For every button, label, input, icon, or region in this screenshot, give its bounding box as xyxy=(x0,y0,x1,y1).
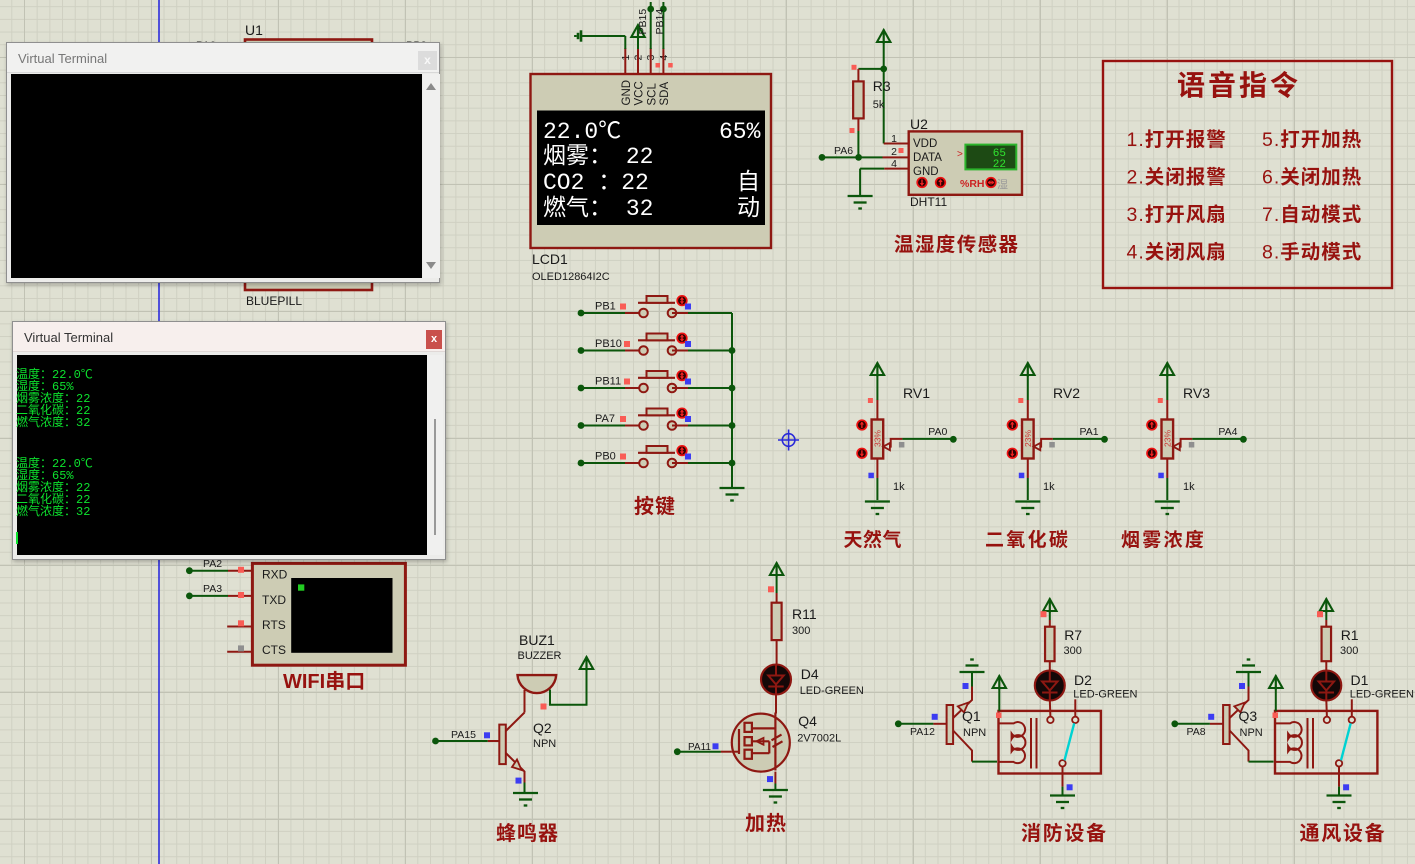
svg-text:300: 300 xyxy=(1064,645,1082,657)
resistor R1 300 xyxy=(1322,627,1332,662)
relay (消防设备) xyxy=(999,711,1101,774)
svg-text:2V7002L: 2V7002L xyxy=(797,733,841,745)
push button PB0 xyxy=(578,460,585,467)
svg-text:LED-GREEN: LED-GREEN xyxy=(800,685,864,697)
svg-text:R7: R7 xyxy=(1064,627,1082,643)
power (buzzer) xyxy=(580,657,593,671)
push button PB11 xyxy=(578,385,585,392)
svg-text:RV1: RV1 xyxy=(903,385,930,401)
svg-text:5.打开加热: 5.打开加热 xyxy=(1262,123,1362,152)
power (通风设备 relay) xyxy=(1269,676,1282,690)
svg-text:RTS: RTS xyxy=(262,618,286,632)
svg-text:PB10: PB10 xyxy=(595,338,622,350)
transistor Q3 NPN xyxy=(1223,705,1230,744)
svg-text:RV3: RV3 xyxy=(1183,385,1210,401)
transistor Q1 NPN xyxy=(947,705,954,744)
svg-text:R11: R11 xyxy=(792,606,817,622)
svg-text:PA1: PA1 xyxy=(1080,426,1099,438)
svg-text:蜂鸣器: 蜂鸣器 xyxy=(496,817,559,846)
svg-text:通风设备: 通风设备 xyxy=(1300,817,1387,846)
svg-text:SCL: SCL xyxy=(646,83,658,106)
node PA8 xyxy=(1171,720,1178,727)
ground (RV1) xyxy=(865,502,890,515)
svg-text:23%: 23% xyxy=(1023,430,1033,447)
power (R7) xyxy=(1043,599,1056,613)
svg-text:33%: 33% xyxy=(873,430,883,447)
svg-text:PA11: PA11 xyxy=(688,742,711,753)
power (R1) xyxy=(1320,599,1333,613)
svg-text:300: 300 xyxy=(1340,645,1358,657)
node PA15 xyxy=(432,738,439,745)
push button PA7 xyxy=(578,422,585,429)
svg-text:PB0: PB0 xyxy=(595,451,616,463)
svg-text:PA15: PA15 xyxy=(451,729,476,741)
svg-text:PA3: PA3 xyxy=(203,583,222,595)
svg-text:VDD: VDD xyxy=(913,138,937,150)
power (LCD pin2) xyxy=(631,25,644,39)
potentiometer RV1 xyxy=(876,376,878,400)
svg-text:Q2: Q2 xyxy=(533,720,552,736)
svg-text:23%: 23% xyxy=(1163,430,1173,447)
Q4 source to ground xyxy=(774,772,776,784)
svg-text:语音指令: 语音指令 xyxy=(1177,64,1301,104)
node PA0 xyxy=(902,438,953,440)
WIFI module xyxy=(252,563,405,665)
svg-text:RV2: RV2 xyxy=(1053,385,1080,401)
svg-text:OLED12864I2C: OLED12864I2C xyxy=(532,271,610,283)
ground (Q4) xyxy=(763,790,788,803)
svg-text:Q1: Q1 xyxy=(962,708,981,724)
svg-text:GND: GND xyxy=(913,166,939,178)
power (RV2) xyxy=(1021,363,1034,377)
node PA6 xyxy=(819,154,826,161)
power (RV1) xyxy=(871,363,884,377)
svg-text:PA8: PA8 xyxy=(1187,726,1206,738)
LED D4 xyxy=(761,665,791,695)
MOSFET Q4 2V7002L xyxy=(732,714,790,772)
svg-text:BUZZER: BUZZER xyxy=(518,650,562,662)
svg-text:按键: 按键 xyxy=(634,490,676,519)
svg-text:PA6: PA6 xyxy=(834,145,853,157)
ground (RV3) xyxy=(1155,502,1180,515)
CTS stub xyxy=(227,651,252,653)
transistor Q2 NPN xyxy=(524,690,526,713)
node PA11 xyxy=(674,748,681,755)
svg-text:TXD: TXD xyxy=(262,593,286,607)
LED D1 xyxy=(1311,671,1341,701)
wire PB14 (SDA) xyxy=(662,2,664,49)
ground (Q3 emitter) xyxy=(1236,660,1261,673)
ground (Q2) xyxy=(513,793,538,806)
svg-text:VCC: VCC xyxy=(634,81,646,105)
LCD1 OLED12864I2C xyxy=(531,74,772,248)
svg-text:PB15: PB15 xyxy=(637,9,649,35)
virtual terminal window 2 xyxy=(12,321,446,560)
svg-text:CTS: CTS xyxy=(262,643,286,657)
svg-text:2.关闭报警: 2.关闭报警 xyxy=(1127,161,1227,190)
svg-text:22: 22 xyxy=(993,159,1006,171)
svg-text:U2: U2 xyxy=(910,116,928,132)
svg-text:%RH: %RH xyxy=(960,178,985,190)
svg-text:4.关闭风扇: 4.关闭风扇 xyxy=(1127,236,1227,265)
svg-text:PA0: PA0 xyxy=(928,426,947,438)
svg-text:RXD: RXD xyxy=(262,568,288,582)
origin marker xyxy=(778,430,799,451)
svg-text:二氧化碳: 二氧化碳 xyxy=(985,525,1070,552)
svg-text:PB11: PB11 xyxy=(595,376,621,388)
svg-text:R3: R3 xyxy=(873,78,891,94)
ground (通风设备) xyxy=(1327,796,1352,809)
push button PB1 xyxy=(578,310,585,317)
LED D2 xyxy=(1035,671,1065,701)
ground (buttons) xyxy=(720,488,745,501)
svg-text:温湿度传感器: 温湿度传感器 xyxy=(894,228,1019,257)
potentiometer RV2 xyxy=(1027,376,1029,400)
resistor R11 300 xyxy=(772,603,782,640)
svg-text:烟雾浓度: 烟雾浓度 xyxy=(1121,525,1206,552)
svg-text:1k: 1k xyxy=(1183,481,1195,493)
svg-text:2: 2 xyxy=(891,146,897,158)
wire PB15 (SCL) xyxy=(650,2,652,49)
svg-text:WIFI串口: WIFI串口 xyxy=(283,665,365,694)
svg-text:1k: 1k xyxy=(1043,481,1055,493)
voice command table xyxy=(1103,61,1392,288)
svg-text:1.打开报警: 1.打开报警 xyxy=(1127,123,1227,152)
svg-text:8.手动模式: 8.手动模式 xyxy=(1262,236,1362,265)
svg-text:SDA: SDA xyxy=(659,82,671,106)
node PA3 xyxy=(186,593,193,600)
power (消防设备 relay) xyxy=(993,676,1006,690)
svg-text:PB1: PB1 xyxy=(595,301,616,313)
RTS stub xyxy=(227,626,252,628)
ground (U2 GND) xyxy=(884,168,909,170)
svg-text:NPN: NPN xyxy=(533,738,556,750)
node PA4 xyxy=(1192,438,1243,440)
svg-text:D4: D4 xyxy=(801,666,819,682)
ground (消防设备) xyxy=(1050,796,1075,809)
button bus wire xyxy=(731,313,733,487)
virtual terminal window 1 xyxy=(6,42,440,283)
node PA2 xyxy=(186,567,193,574)
svg-text:GND: GND xyxy=(621,80,633,106)
svg-text:300: 300 xyxy=(792,625,810,637)
LCD pin wires xyxy=(624,48,626,74)
svg-text:LED-GREEN: LED-GREEN xyxy=(1350,689,1414,701)
svg-text:动: 动 xyxy=(737,188,760,222)
svg-text:6.关闭加热: 6.关闭加热 xyxy=(1262,161,1362,190)
svg-text:D2: D2 xyxy=(1074,672,1092,688)
svg-text:Q4: Q4 xyxy=(798,713,817,729)
resistor R7 300 xyxy=(1045,627,1055,662)
svg-text:65%: 65% xyxy=(719,119,761,145)
svg-text:DATA: DATA xyxy=(913,152,942,164)
svg-text:加热: 加热 xyxy=(745,807,787,836)
power (U2 VDD) xyxy=(877,30,890,44)
svg-text:1k: 1k xyxy=(893,481,905,493)
push button PB10 xyxy=(578,347,585,354)
svg-text:PA12: PA12 xyxy=(910,726,935,738)
svg-text:湿: 湿 xyxy=(997,176,1008,192)
potentiometer RV3 xyxy=(1166,376,1168,400)
ground (Q1 emitter) xyxy=(960,660,985,673)
sensor U2 DHT11 xyxy=(909,131,1022,194)
svg-text:PB14: PB14 xyxy=(654,9,666,35)
svg-text:3.打开风扇: 3.打开风扇 xyxy=(1127,198,1227,227)
svg-text:天然气: 天然气 xyxy=(844,525,903,552)
svg-text:5k: 5k xyxy=(873,99,885,111)
power (heater) xyxy=(770,563,783,577)
svg-text:Q3: Q3 xyxy=(1239,708,1258,724)
svg-text:R1: R1 xyxy=(1341,627,1359,643)
ground (RV2) xyxy=(1015,502,1040,515)
relay (通风设备) xyxy=(1275,711,1377,774)
svg-text:NPN: NPN xyxy=(963,727,986,739)
svg-text:NPN: NPN xyxy=(1240,727,1263,739)
svg-text:BLUEPILL: BLUEPILL xyxy=(246,294,302,308)
node PA1 xyxy=(1053,438,1105,440)
MCU U1 BLUEPILL xyxy=(245,40,372,291)
svg-text:>: > xyxy=(957,149,963,160)
svg-text:LED-GREEN: LED-GREEN xyxy=(1073,689,1137,701)
svg-text:7.自动模式: 7.自动模式 xyxy=(1262,198,1362,227)
svg-text:D1: D1 xyxy=(1351,672,1369,688)
power (RV3) xyxy=(1161,363,1174,377)
svg-text:DHT11: DHT11 xyxy=(910,195,947,209)
svg-text:PA7: PA7 xyxy=(595,413,615,425)
ground (LCD pin1) xyxy=(575,30,581,41)
svg-text:PA4: PA4 xyxy=(1218,426,1237,438)
svg-text:消防设备: 消防设备 xyxy=(1021,817,1108,846)
svg-text:LCD1: LCD1 xyxy=(532,251,568,267)
node PA12 xyxy=(895,720,902,727)
svg-text:BUZ1: BUZ1 xyxy=(519,632,555,648)
svg-text:U1: U1 xyxy=(245,22,263,38)
resistor R3 5k xyxy=(880,66,887,73)
